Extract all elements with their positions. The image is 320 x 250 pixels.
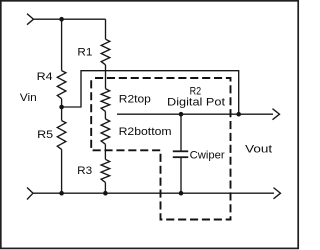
wire wiper to Cwiper — [180, 114, 182, 151]
capacitor Cwiper plates — [173, 150, 188, 152]
wire node Vin to R5 — [61, 107, 63, 121]
wire R4 to node Vin — [61, 99, 63, 107]
arrow Vout — [273, 109, 280, 120]
wire Cwiper to bottom rail — [180, 157, 182, 193]
wire wiper line — [117, 113, 273, 115]
resistor R3 — [101, 159, 110, 182]
svg-text:R2top: R2top — [119, 94, 151, 106]
svg-text:Digital Pot: Digital Pot — [167, 97, 225, 109]
svg-text:R4: R4 — [37, 71, 53, 83]
wire bottom rail — [33, 192, 274, 194]
junction R3 bottom — [103, 191, 108, 196]
svg-text:R2bottom: R2bottom — [119, 126, 172, 138]
svg-text:R1: R1 — [77, 47, 92, 59]
wire R1 top lead — [105, 19, 107, 39]
resistor R2bottom — [101, 119, 110, 144]
junction node Vin — [59, 105, 64, 110]
wire R3 to bottom rail — [104, 182, 106, 193]
wire R2top to R2bottom — [104, 111, 106, 119]
input terminal top — [27, 14, 34, 25]
wire top rail — [34, 18, 106, 20]
resistor R4 — [57, 71, 66, 99]
junction Cwiper bottom — [179, 191, 184, 196]
resistor R2top — [101, 89, 110, 112]
resistor R1 — [101, 39, 110, 65]
wire left rail upper — [61, 19, 63, 70]
wire R5 to bottom rail — [61, 149, 63, 193]
svg-text:R3: R3 — [77, 165, 92, 177]
wire R1 to R2top — [105, 65, 107, 89]
junction wiper-Cwiper — [179, 112, 184, 117]
svg-text:R2: R2 — [190, 85, 202, 97]
arrow bottom rail — [274, 188, 281, 199]
resistor R5 — [57, 121, 66, 150]
wire Vin node up-over to pot terminal — [62, 71, 239, 115]
svg-text:Vin: Vin — [20, 92, 37, 104]
junction bottom left — [59, 191, 64, 196]
svg-text:R5: R5 — [37, 129, 53, 141]
junction top node — [59, 17, 64, 22]
junction pot terminal on output — [236, 112, 241, 117]
digital pot R2 dashed outline — [91, 78, 230, 220]
svg-text:Vout: Vout — [245, 144, 272, 156]
svg-text:Cwiper: Cwiper — [190, 149, 225, 161]
input terminal bottom — [27, 188, 33, 200]
wire R2bottom to R3 — [104, 144, 106, 159]
